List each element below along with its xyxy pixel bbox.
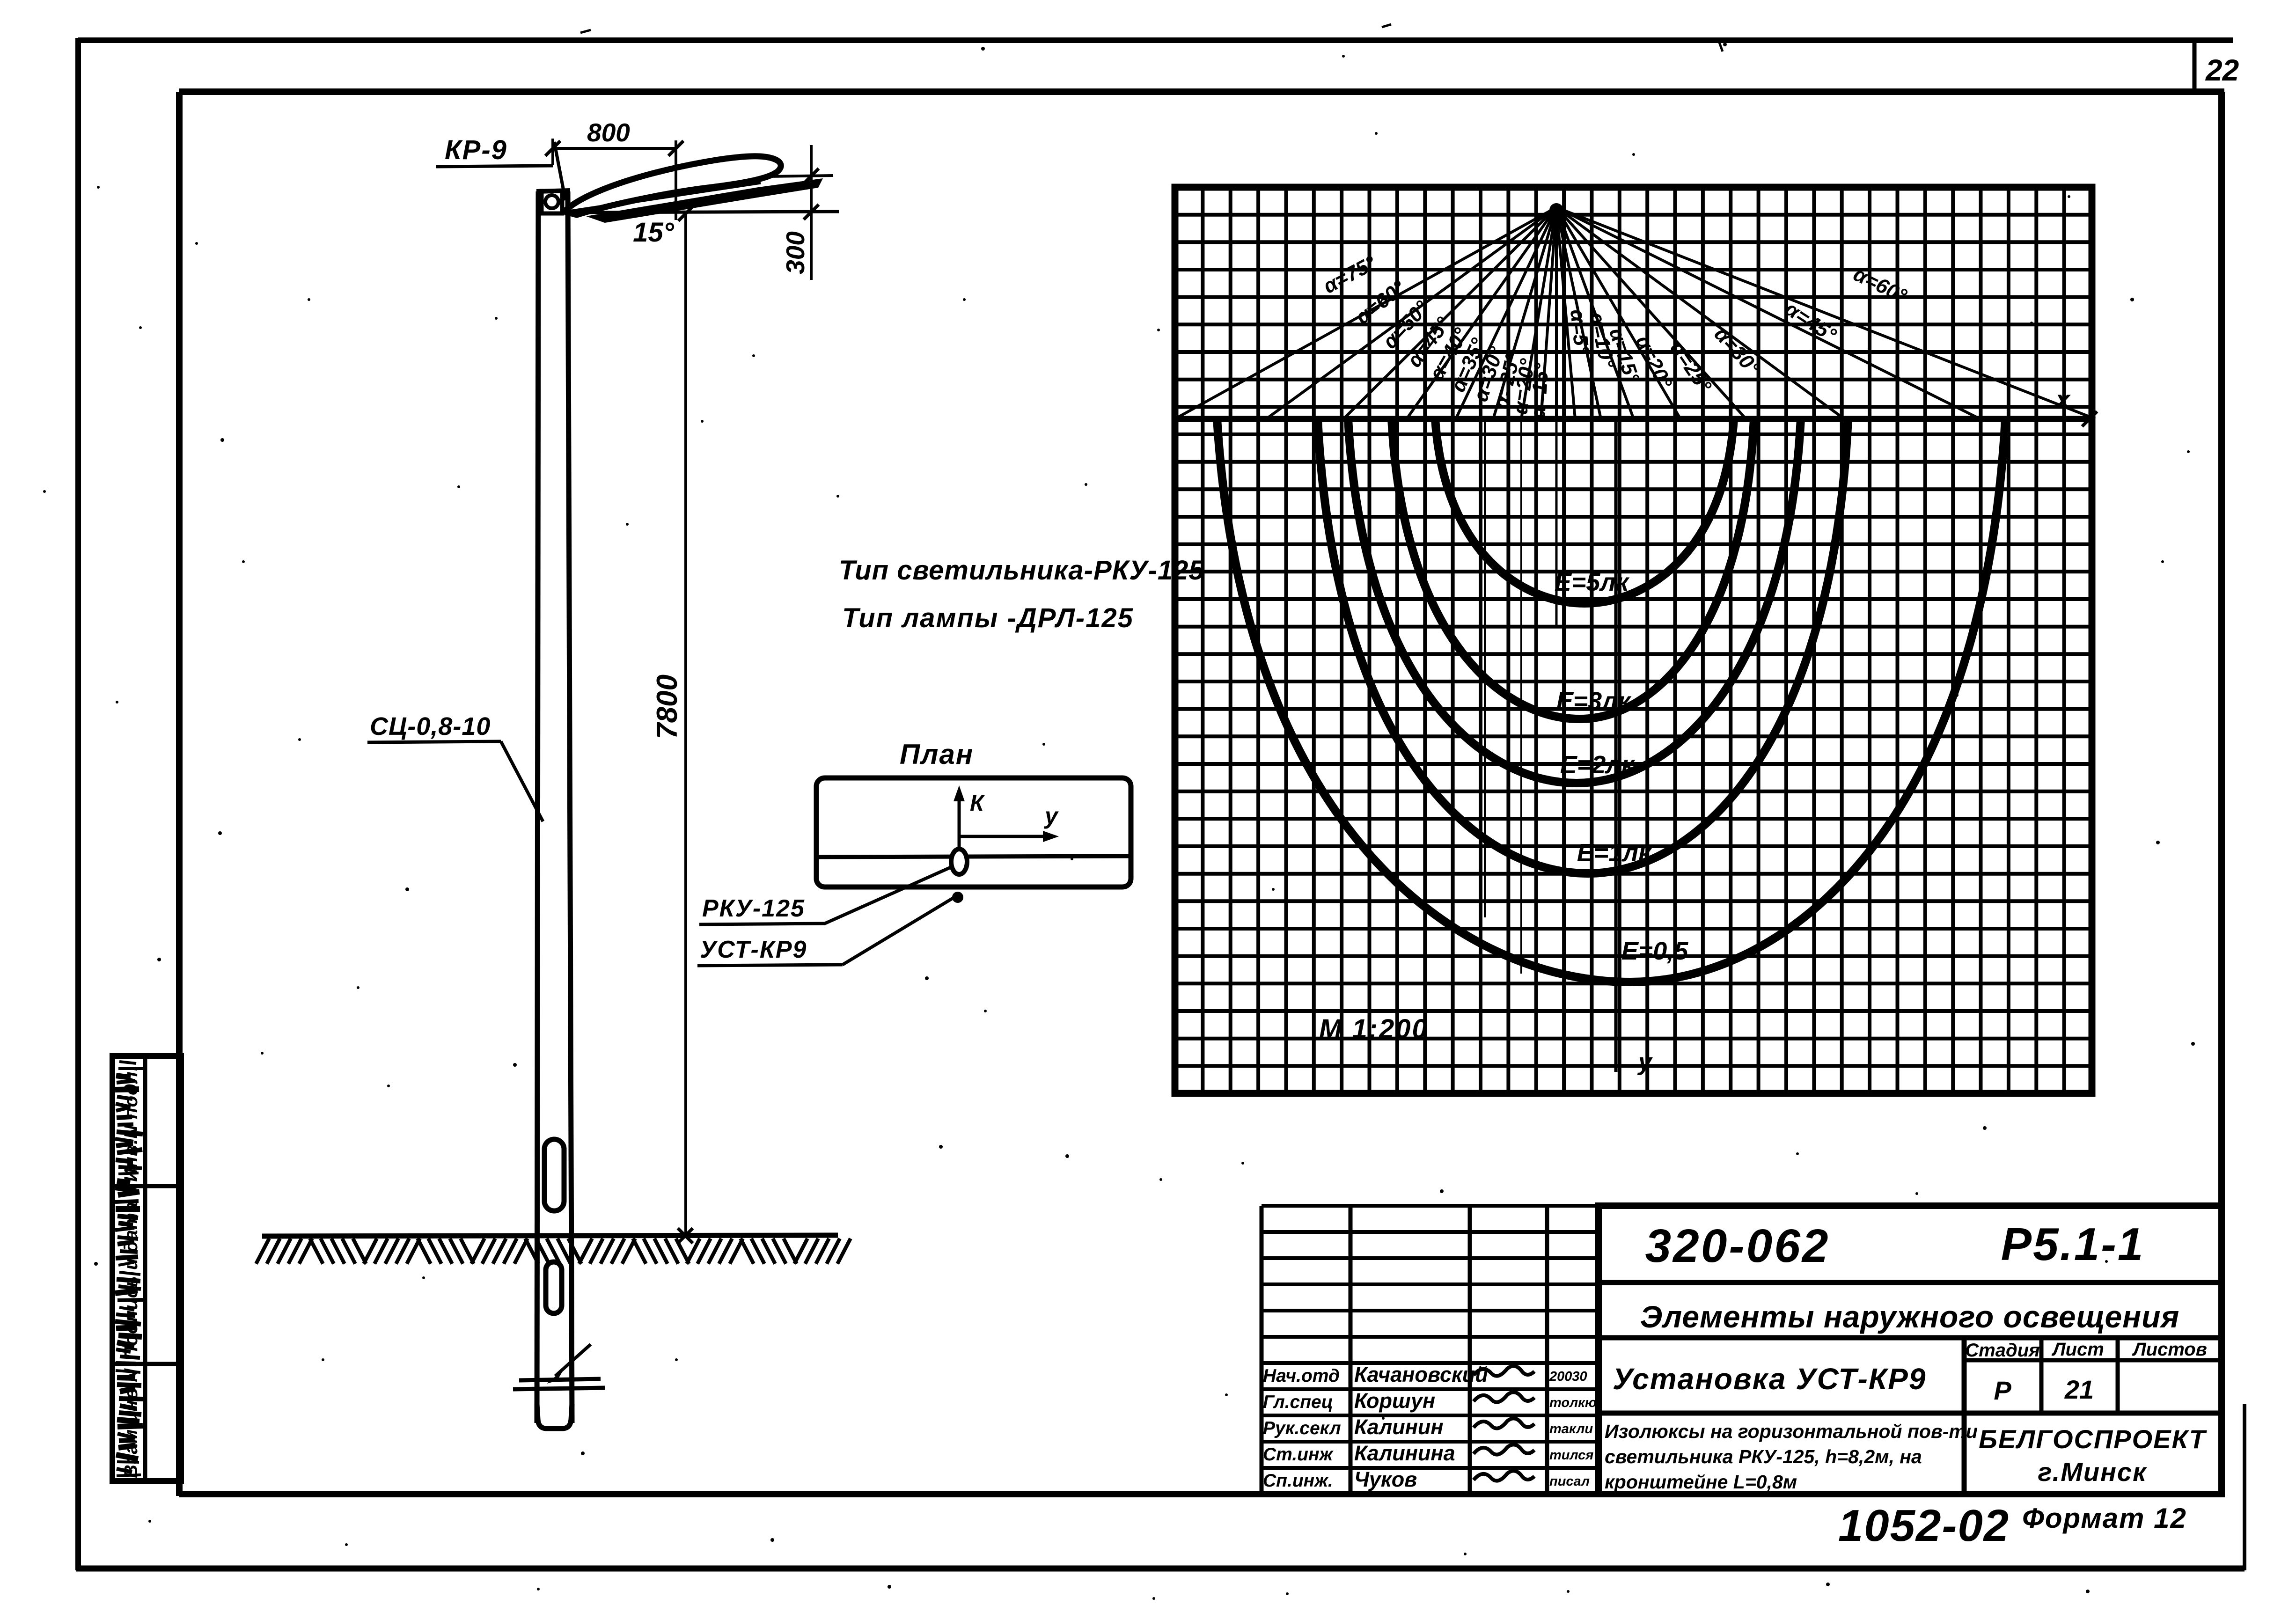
pole cap (536, 191, 570, 191)
curve Е=1лк (1318, 419, 1848, 873)
apex lamp point (1549, 203, 1563, 217)
vertical y axis below lamp (1614, 419, 1618, 1072)
svg-text:22: 22 (2205, 53, 2239, 87)
curve Е=0,5 (1217, 419, 2005, 982)
svg-text:План: План (900, 739, 974, 770)
aux vertical lines (1555, 419, 1558, 627)
svg-text:светильника РКУ-125, h=8,2м, н: светильника РКУ-125, h=8,2м, на (1605, 1446, 1922, 1467)
svg-text:1052-02: 1052-02 (1838, 1501, 2010, 1551)
svg-text:Е=5лк: Е=5лк (1555, 568, 1630, 596)
curb line (818, 856, 1130, 857)
svg-text:Калинина: Калинина (1354, 1441, 1455, 1465)
page number box (2193, 40, 2197, 92)
svg-text:у: у (1043, 803, 1059, 829)
pole rounded bottom (537, 1404, 572, 1429)
svg-text:Установка УСТ-КР9: Установка УСТ-КР9 (1613, 1362, 1926, 1396)
svg-text:21: 21 (2064, 1375, 2094, 1404)
x axis end tick (2082, 411, 2097, 426)
scan speckles (139, 326, 142, 329)
flange lines (519, 1379, 601, 1380)
svg-text:15°: 15° (633, 217, 675, 248)
dim 7800 vertical (684, 213, 687, 1236)
axis Y (959, 835, 1050, 838)
outer border (78, 37, 2233, 43)
flange arrow (555, 1344, 591, 1376)
upper vent slot (544, 1139, 564, 1211)
svg-text:писал: писал (1549, 1474, 1590, 1489)
svg-text:КР-9: КР-9 (445, 135, 507, 165)
luminaire body (565, 156, 781, 215)
pole left edge (537, 191, 538, 1423)
svg-text:Качановский: Качановский (1354, 1363, 1488, 1386)
svg-text:г.Минск: г.Минск (2038, 1457, 2148, 1487)
svg-text:М 1:200: М 1:200 (1319, 1014, 1429, 1044)
svg-text:Рук.секл: Рук.секл (1263, 1418, 1341, 1438)
svg-text:Р: Р (1994, 1376, 2011, 1405)
isolux grid (1175, 187, 2092, 1093)
pole right edge (568, 191, 572, 1423)
fan rays (1175, 207, 2095, 419)
left stamp table (112, 1056, 181, 1481)
inner border (179, 88, 2224, 95)
axis K (958, 792, 961, 848)
svg-text:тился: тился (1549, 1448, 1593, 1463)
svg-text:Калинин: Калинин (1354, 1415, 1444, 1439)
ground hatching (256, 1239, 269, 1264)
svg-text:Лист: Лист (2051, 1339, 2104, 1360)
svg-text:800: 800 (587, 118, 630, 147)
svg-text:Е=1лк: Е=1лк (1577, 839, 1652, 867)
svg-text:Е=2лк: Е=2лк (1560, 751, 1636, 779)
curve Е=2лк (1348, 419, 1801, 783)
svg-text:Сп.инж.: Сп.инж. (1263, 1471, 1333, 1491)
svg-text:такли: такли (1549, 1422, 1593, 1436)
svg-text:Коршун: Коршун (1354, 1389, 1435, 1413)
svg-text:Элементы наружного освещения: Элементы наружного освещения (1640, 1299, 2180, 1334)
svg-text:БЕЛГОСПРОЕКТ: БЕЛГОСПРОЕКТ (1979, 1424, 2207, 1454)
bracket strut (554, 142, 565, 200)
svg-text:К: К (970, 791, 985, 816)
svg-text:Е=3лк: Е=3лк (1556, 687, 1632, 715)
lower vent slot (546, 1262, 562, 1313)
svg-text:20030: 20030 (1549, 1369, 1587, 1384)
svg-text:РКУ-125: РКУ-125 (702, 895, 805, 922)
anchor dot on plan (952, 892, 963, 903)
svg-text:Формат 12: Формат 12 (2022, 1502, 2187, 1534)
x axis line (1173, 416, 2095, 422)
bracket clamp circle (545, 195, 558, 208)
small dashes (1382, 24, 1391, 27)
svg-text:300: 300 (781, 231, 810, 274)
bracket box (542, 191, 562, 213)
svg-text:СЦ-0,8-10: СЦ-0,8-10 (370, 712, 491, 740)
luminaire reflector plate (586, 178, 823, 223)
svg-text:Е=0,5: Е=0,5 (1621, 937, 1689, 965)
svg-text:Тип лампы -ДРЛ-125: Тип лампы -ДРЛ-125 (842, 603, 1134, 633)
dim 300 (768, 176, 833, 176)
svg-text:Гл.спец: Гл.спец (1263, 1392, 1333, 1412)
ground line (262, 1235, 838, 1236)
curve Е=3лк (1392, 419, 1754, 719)
svg-text:Чуков: Чуков (1354, 1467, 1417, 1491)
svg-text:Р5.1-1: Р5.1-1 (2001, 1218, 2145, 1270)
ground tick cross (678, 1228, 693, 1243)
pole circle on plan (951, 849, 967, 874)
road plan rectangle (816, 778, 1131, 887)
svg-text:Изолюксы на горизонтальной пов: Изолюксы на горизонтальной пов-ти (1605, 1421, 1978, 1442)
svg-text:Ст.инж: Ст.инж (1263, 1444, 1334, 1465)
svg-text:кронштейне L=0,8м: кронштейне L=0,8м (1605, 1471, 1797, 1493)
luminaire seam (569, 183, 761, 212)
svg-text:у: у (1637, 1048, 1653, 1076)
svg-text:7800: 7800 (651, 674, 683, 739)
svg-text:α=15°: α=15° (1526, 362, 1553, 419)
outer border right segment (2243, 1404, 2246, 1570)
svg-text:Нач.отд: Нач.отд (1263, 1366, 1340, 1386)
dim 800 (551, 139, 554, 165)
curve Е=5лк (1435, 419, 1734, 603)
title block main frame (1599, 1206, 2222, 1494)
title block signature table (1262, 1206, 1599, 1494)
svg-text:Стадия: Стадия (1965, 1340, 2039, 1361)
svg-text:Тип светильника-РКУ-125: Тип светильника-РКУ-125 (839, 555, 1204, 586)
svg-text:Листов: Листов (2132, 1339, 2207, 1360)
svg-text:УСТ-КР9: УСТ-КР9 (700, 936, 807, 963)
svg-text:толкю: толкю (1549, 1395, 1597, 1410)
svg-text:320-062: 320-062 (1645, 1220, 1830, 1272)
reference line under luminaire (576, 212, 839, 213)
